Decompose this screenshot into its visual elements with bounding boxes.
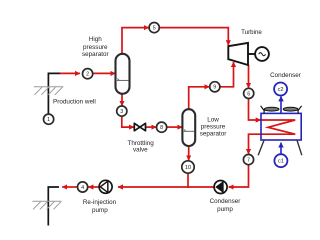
node 7 xyxy=(243,155,253,165)
wire: production well riser (black) xyxy=(48,73,60,114)
node 6 xyxy=(244,88,254,98)
node 9 xyxy=(210,82,220,92)
svg-text:Production well: Production well xyxy=(53,99,96,106)
svg-text:4: 4 xyxy=(81,185,84,191)
condenser internal zigzag coil (red) xyxy=(249,120,296,154)
wire: stream 2 well to HP separator (red) xyxy=(60,72,80,74)
node 1 xyxy=(44,114,54,124)
svg-text:3: 3 xyxy=(120,109,123,115)
node 4 xyxy=(78,182,88,192)
svg-text:pressure: pressure xyxy=(201,124,226,131)
re-injection pump P1 xyxy=(99,180,112,193)
svg-text:5: 5 xyxy=(153,26,156,32)
condenser leg left xyxy=(258,140,264,155)
svg-text:separator: separator xyxy=(82,51,109,58)
turbine T1 xyxy=(228,43,248,65)
throttling valve V1 xyxy=(134,123,145,131)
condenser fan left xyxy=(261,106,279,114)
svg-text:High: High xyxy=(89,36,102,43)
svg-text:c2: c2 xyxy=(278,87,284,93)
condenser body xyxy=(261,113,301,140)
wire: valve to node 8 (red) xyxy=(146,126,157,128)
node c2 xyxy=(274,83,287,96)
wire: node 7 down to condenser pump (red) xyxy=(229,165,249,187)
wire: cooling air inlet c1 to condenser (blue) xyxy=(280,143,282,155)
svg-text:2: 2 xyxy=(86,72,89,78)
svg-text:Condenser: Condenser xyxy=(210,198,241,205)
wire: stream 10 LP brine to node 10 (red) xyxy=(188,147,190,161)
wire: condenser to cooling air outlet c2 (blue) xyxy=(280,96,282,113)
node 5 xyxy=(149,23,159,33)
svg-text:Low: Low xyxy=(207,117,219,124)
wire: stream 3 HP brine down to node 3 (red) xyxy=(121,93,123,106)
wire: node 10 down to junction (red) xyxy=(187,173,189,188)
svg-text:c1: c1 xyxy=(278,159,284,165)
svg-text:9: 9 xyxy=(213,85,216,91)
node 3 xyxy=(117,106,127,116)
wire: stream 9 LP steam to turbine (red) xyxy=(189,87,210,109)
svg-text:separator: separator xyxy=(200,131,227,138)
svg-text:Condenser: Condenser xyxy=(270,72,301,79)
svg-text:valve: valve xyxy=(133,147,148,154)
ground hatch at production well xyxy=(34,87,64,95)
wire: junction to re-injection pump (red) xyxy=(118,186,188,188)
condenser leg right xyxy=(297,140,302,155)
generator G xyxy=(255,47,269,61)
wire: node 3 to throttling valve (red) xyxy=(122,116,134,127)
node 8 xyxy=(157,122,167,132)
condenser fan right xyxy=(283,106,301,114)
svg-text:Turbine: Turbine xyxy=(241,29,262,36)
wire: re-injection well drop (black) xyxy=(48,187,59,226)
svg-text:7: 7 xyxy=(247,158,250,164)
wire: stream 5 HP steam to turbine (red) xyxy=(122,28,149,55)
wire: re-injection pump to node 4 (red) xyxy=(88,186,99,188)
wire: node 4 to re-injection well (red) xyxy=(62,186,77,188)
svg-text:pump: pump xyxy=(92,207,108,214)
HP separator level line xyxy=(117,79,129,81)
condenser pump P2 xyxy=(214,181,227,194)
svg-text:6: 6 xyxy=(247,91,250,97)
node 10 xyxy=(182,161,194,173)
node c1 xyxy=(274,154,287,167)
HP separator vessel xyxy=(116,54,130,94)
svg-text:pump: pump xyxy=(217,206,233,213)
generator shaft xyxy=(248,53,255,55)
LP separator vessel xyxy=(182,109,195,146)
ground hatch at re-injection well xyxy=(32,201,61,209)
wire: turbine exhaust stream 6 to node 6 (red) xyxy=(248,65,250,88)
wire: condenser pump to junction (red) xyxy=(188,186,214,188)
LP separator level line xyxy=(184,130,195,132)
wire: node 6 down and into condenser (red) xyxy=(249,99,261,120)
svg-text:10: 10 xyxy=(185,165,191,171)
svg-text:8: 8 xyxy=(160,125,163,131)
svg-text:Re-injection: Re-injection xyxy=(83,199,117,206)
svg-text:1: 1 xyxy=(47,117,50,123)
node 2 xyxy=(83,69,93,79)
wire: node 8 to LP separator (red) xyxy=(167,126,182,128)
